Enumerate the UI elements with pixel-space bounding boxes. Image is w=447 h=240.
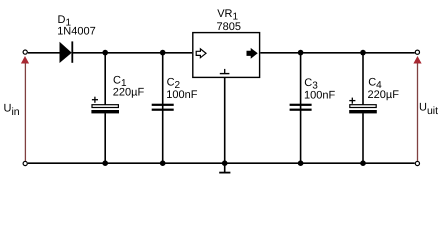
svg-text:220µF: 220µF xyxy=(368,89,400,101)
svg-text:100nF: 100nF xyxy=(304,90,335,102)
svg-text:1N4007: 1N4007 xyxy=(57,26,96,38)
svg-text:220µF: 220µF xyxy=(113,87,145,99)
svg-text:100nF: 100nF xyxy=(166,89,197,101)
svg-text:7805: 7805 xyxy=(217,21,241,33)
